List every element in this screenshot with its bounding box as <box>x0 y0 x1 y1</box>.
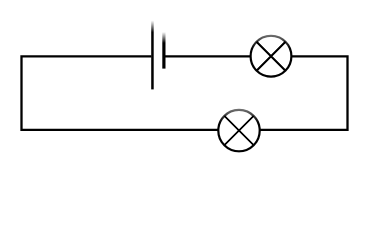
lamp L1 (top): circle <box>251 36 292 77</box>
lamp L2 (bottom): X cross <box>224 116 253 145</box>
wire: top lamp to top-right corner, right side, bottom-right segment <box>260 56 347 129</box>
lamp L1 (top): X cross <box>257 42 286 71</box>
battery cell E1: short plate (right) <box>162 32 165 69</box>
battery cell E1: long plate (left) <box>151 21 154 90</box>
wire: battery to top lamp <box>165 55 250 57</box>
lamp L2 (bottom): circle <box>218 110 259 151</box>
wire: top-left segment, left side, bottom-left segment <box>22 56 218 129</box>
